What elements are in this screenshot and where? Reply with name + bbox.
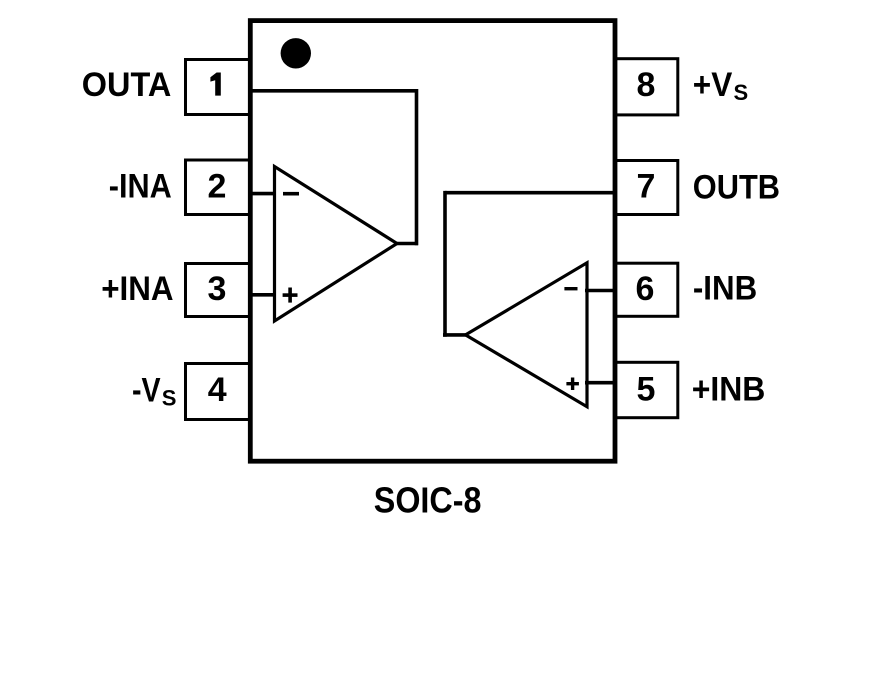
wire pin7 to B feedback (horizontal) (445, 191, 615, 195)
svg-text:S: S (162, 386, 177, 411)
pin 4 box (186, 364, 251, 420)
label OUTB (pin 7) (693, 168, 780, 206)
label -Vs (pin 4) (132, 372, 176, 411)
pin 2 number (208, 168, 227, 206)
pin 4 number (208, 371, 227, 409)
svg-text:7: 7 (637, 168, 656, 206)
label -INA (pin 2) (109, 167, 172, 205)
wire A output to feedback (396, 242, 418, 246)
pin 3 box (186, 264, 251, 317)
caption SOIC-8 (374, 480, 482, 521)
svg-text:2: 2 (208, 168, 227, 206)
svg-text:+INA: +INA (101, 270, 173, 308)
pin 7 box (615, 161, 678, 215)
label +Vs (pin 8) (693, 66, 748, 105)
label +INB (pin 5) (692, 370, 766, 408)
svg-text:-INA: -INA (109, 167, 172, 205)
pin 1 number (210, 73, 220, 96)
label OUTA (pin 1) (82, 66, 172, 104)
op-amp B non-inverting input marker (plus) (566, 378, 579, 391)
pin 1 marker dot (281, 38, 311, 68)
pin 3 number (208, 270, 227, 308)
svg-text:+V: +V (693, 66, 733, 104)
op-amp A triangle (275, 167, 398, 322)
pin 1 box (186, 60, 251, 115)
pin 6 box (615, 263, 678, 316)
pin 5 box (615, 362, 678, 417)
IC body U1 (SOIC-8 package outline) (250, 21, 615, 462)
svg-text:5: 5 (637, 371, 656, 409)
svg-text:+INB: +INB (692, 370, 766, 408)
op-amp A inverting input marker (minus) (283, 192, 299, 196)
wire B output to feedback (443, 333, 467, 337)
wire A feedback vertical (415, 89, 419, 245)
pin 5 number (637, 371, 656, 409)
label +INA (pin 3) (101, 270, 173, 308)
svg-text:-INB: -INB (693, 269, 757, 307)
svg-text:6: 6 (636, 270, 655, 308)
svg-text:S: S (734, 80, 749, 105)
pin 8 box (615, 59, 678, 115)
wire pin6 to B inverting input (585, 289, 615, 293)
pin 6 number (636, 270, 655, 308)
svg-text:3: 3 (208, 270, 227, 308)
wire pin2 to A inverting input (250, 192, 276, 196)
wire pin5 to B non-inverting input (585, 381, 615, 385)
op-amp B inverting input marker (minus) (564, 287, 577, 290)
svg-text:OUTB: OUTB (693, 168, 780, 206)
wire B feedback vertical (443, 191, 447, 337)
op-amp A non-inverting input marker (plus) (283, 288, 298, 303)
svg-text:-V: -V (132, 372, 161, 410)
wire pin3 to A non-inverting input (250, 293, 276, 297)
wire pin1 to A feedback (horizontal top) (250, 89, 417, 93)
svg-text:SOIC-8: SOIC-8 (374, 480, 482, 521)
svg-text:4: 4 (208, 371, 227, 409)
op-amp B triangle (466, 263, 588, 407)
pin 7 number (637, 168, 656, 206)
pin 2 box (186, 160, 251, 215)
svg-text:OUTA: OUTA (82, 66, 172, 104)
svg-text:8: 8 (637, 66, 656, 104)
pin 8 number (637, 66, 656, 104)
label -INB (pin 6) (693, 269, 757, 307)
